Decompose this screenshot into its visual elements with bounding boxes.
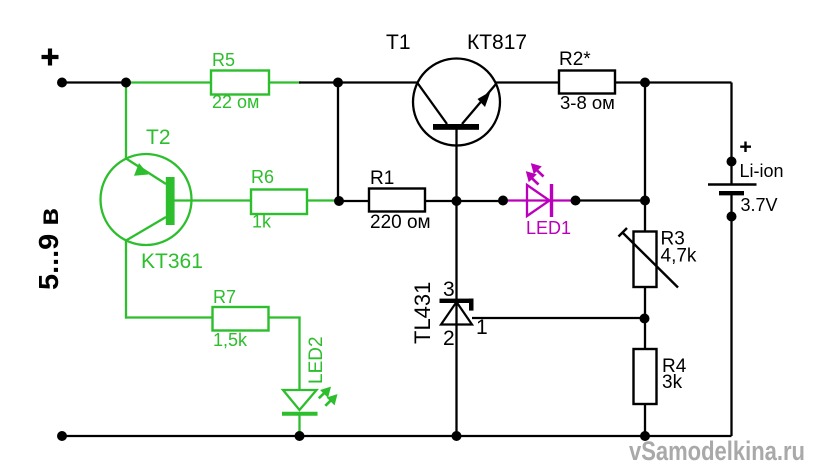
shunt regulator U1 pin 1 label [476,316,488,339]
transistor T1 emitter line [462,84,496,124]
resistor R7 value 1,5k [213,330,248,350]
LED LED1 cathode bar [550,184,553,217]
svg-text:КТ817: КТ817 [467,31,527,54]
resistor R1 value 220 om [370,212,431,233]
node bottom-left terminal [57,431,67,441]
LED LED1 wire [503,199,576,201]
resistor R3 trimmer diagonal [623,233,679,288]
resistor R6 label [251,167,274,187]
resistor R6 value 1k [252,212,272,232]
wire R3 top lead from top rail [644,83,646,232]
wire R1 right lead to LED1 node [425,200,503,202]
svg-text:LED2: LED2 [306,336,327,384]
wire T1 emitter to R2 [496,81,560,83]
LED LED1 triangle [527,185,550,216]
wire green LED2 cathode to bottom rail [298,415,300,436]
resistor R3 trimmer body [634,232,657,288]
wire bottom rail [62,435,732,437]
node R6 R1 junction [334,196,344,206]
wire R3 bottom to R4 top [644,287,646,349]
wire R4 bottom lead [644,404,646,436]
wire vertical x338 top junction to R1 row [337,83,339,202]
watermark vsamodelkina.ru [629,436,805,466]
wire top-left input to first junction [62,81,126,83]
node LED1 cathode [571,196,581,206]
svg-text:R1: R1 [370,168,394,189]
svg-text:2: 2 [443,327,455,350]
node R4 bottom [640,431,650,441]
node LED2 bottom [295,431,305,441]
svg-text:22 ом: 22 ом [212,92,259,112]
input plus terminal symbol [42,49,59,66]
transistor T1 value KT817 [467,31,527,54]
battery B1 label Li-ion [740,161,784,181]
input voltage label 5...9 V rotated [33,208,64,290]
transistor T2 collector line [126,217,166,241]
transistor T1 emitter arrowhead [478,92,491,108]
LED LED2 cathode bar [282,412,318,416]
resistor R4 [634,349,657,404]
resistor R2 value 3-8 om [560,92,615,113]
transistor T2 emitter arrowhead [134,163,149,176]
LED LED2 triangle [283,390,317,410]
transistor T2 value KT361 [141,250,203,273]
resistor R4 value 3k [662,372,683,393]
transistor T1 circle [413,59,500,146]
svg-text:5...9 в: 5...9 в [33,208,64,290]
transistor T2 label [146,126,171,149]
shunt regulator U1 TL431 cathode bar [440,299,474,303]
svg-text:R6: R6 [251,167,274,187]
wire green R7 right lead [269,316,301,318]
node top junction A [121,78,131,88]
svg-text:LED1: LED1 [526,218,571,238]
svg-text:KT361: KT361 [141,250,203,273]
shunt regulator U1 TL431 cathode corner [469,299,474,311]
transistor T1 label [386,31,411,54]
node R3 column R1 row [640,196,650,206]
svg-text:Li-ion: Li-ion [740,161,784,181]
wire T1 base down through TL431 to bottom rail [455,129,457,436]
resistor R4 label [662,356,687,377]
svg-text:vSamodelkina.ru: vSamodelkina.ru [629,436,805,466]
svg-text:3: 3 [443,278,455,301]
node input plus terminal [57,78,67,88]
battery B1 plus sign [740,142,751,153]
wire green R5 right lead [269,81,301,83]
svg-text:3-8 ом: 3-8 ом [560,92,615,113]
wire green junction to R5 [126,81,211,83]
LED LED2 emission arrows [319,387,337,405]
node battery minus [727,212,737,222]
svg-text:T2: T2 [146,126,171,149]
battery B1 short plate [719,191,744,195]
resistor R3 label [661,229,685,250]
resistor R6 [251,190,307,215]
shunt regulator U1 TL431 triangle [441,302,472,325]
node divider reference junction [640,314,650,324]
svg-text:3k: 3k [662,372,683,393]
wire green T2 base to R6 [174,199,251,201]
resistor R1 [369,189,425,212]
resistor R5 label [212,50,235,70]
svg-text:1,5k: 1,5k [213,330,248,350]
resistor R1 label [370,168,394,189]
svg-text:220 ом: 220 ом [370,212,431,233]
resistor R2 [559,71,615,94]
LED LED2 label rotated [306,336,327,384]
resistor R3 trimmer tick [619,228,628,237]
transistor T2 circle [101,154,192,245]
svg-text:TL431: TL431 [410,282,435,344]
node LED1 anode [498,196,508,206]
wire green to R7 [125,316,213,318]
wire top black to T1 [299,81,418,83]
shunt regulator U1 TL431 label rotated [410,282,435,344]
svg-text:R2*: R2* [559,49,591,70]
svg-text:1k: 1k [252,212,272,232]
svg-text:1: 1 [476,316,488,339]
shunt regulator U1 pin 2 label [443,327,455,350]
resistor R7 label [213,287,236,307]
wire TL431 reference to divider junction [472,317,645,319]
node top junction B [333,78,343,88]
resistor R5 value 22 om [212,92,259,112]
node top junction C [640,78,650,88]
node T1 base junction [452,196,462,206]
transistor T2 base bar [166,177,175,225]
shunt regulator U1 pin 3 label [443,278,455,301]
transistor T1 collector line [418,83,448,124]
wire LED1 right to R3 column [576,199,646,201]
battery B1 value 3.7V [741,195,778,215]
wire green T2 emitter vertical [125,83,127,159]
LED LED1 label [526,218,571,238]
svg-text:4,7k: 4,7k [661,246,697,267]
node TL431 bottom [452,431,462,441]
resistor R7 [213,307,269,331]
transistor T2 emitter line [126,159,166,185]
svg-text:R5: R5 [212,50,235,70]
resistor R2 label [559,49,591,70]
LED LED1 emission arrows [527,164,544,185]
battery B1 long plate [708,183,757,186]
svg-text:T1: T1 [386,31,411,54]
wire battery bottom drop [730,194,732,436]
wire battery top drop [730,83,732,185]
resistor R3 value 4,7k [661,246,697,267]
wire green T2 collector down [125,240,127,319]
svg-text:R7: R7 [213,287,236,307]
wire R2 to battery top [615,81,732,83]
wire R1 left lead [338,200,369,202]
svg-text:3.7V: 3.7V [741,195,778,215]
transistor T1 base bar [433,124,479,130]
wire green R6 right lead [307,199,338,201]
node battery plus [727,157,737,167]
wire green down to LED2 [298,317,300,391]
resistor R5 [211,71,269,95]
